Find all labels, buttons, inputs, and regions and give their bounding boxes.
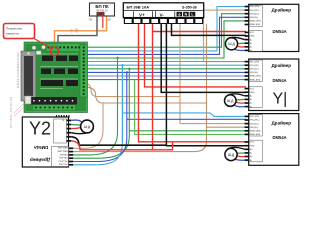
wire cyan: PCB to driver Y1 row2 <box>87 64 246 66</box>
svg-text:ENBL+(EN): ENBL+(EN) <box>250 131 261 133</box>
ground N L boxed labels <box>177 12 183 17</box>
svg-text:DM54A: DM54A <box>273 135 287 140</box>
driver Y2 (bottom left, rotated 180) <box>22 117 73 167</box>
svg-text:DIR+(DI+): DIR+(DI+) <box>250 123 259 125</box>
svg-text:ENBL-(EN): ENBL-(EN) <box>250 134 260 136</box>
motor Z <box>225 148 237 160</box>
white connector bottom-left <box>25 96 31 104</box>
svg-text:ENBL+(EN): ENBL+(EN) <box>57 150 67 152</box>
wire cyan: Y2 pin to rail v3 <box>73 142 122 165</box>
DB25 connector <box>21 51 36 101</box>
svg-text:Ш.Д: Ш.Д <box>228 42 235 46</box>
svg-text:DIR+(DI+): DIR+(DI+) <box>250 69 259 71</box>
wire red rail to driver X VCC + down to Y2 <box>152 24 154 150</box>
wire tan rail 2 down <box>206 24 208 141</box>
svg-text:DIR-(DI-): DIR-(DI-) <box>59 153 67 155</box>
svg-text:Драйвер: Драйвер <box>272 7 292 13</box>
svg-text:ENBL-(EN): ENBL-(EN) <box>250 24 260 26</box>
svg-text:-5В: -5В <box>89 19 93 22</box>
svg-text:N: N <box>185 13 188 17</box>
svg-text:PUL+(PU): PUL+(PU) <box>250 116 260 118</box>
svg-text:Y2: Y2 <box>29 119 51 139</box>
svg-text:GND: GND <box>250 145 255 147</box>
wire cyan: PCB to driver X PUL <box>87 7 246 51</box>
svg-text:Драйвер: Драйвер <box>272 120 292 126</box>
svg-text:PUL-(PU-): PUL-(PU-) <box>250 120 260 122</box>
wire green rail v4 + branch driver Z row5 <box>128 69 130 136</box>
wire green: PCB to driver Y1 row6 <box>87 79 246 81</box>
wire tan rail: PSU area down <box>179 24 181 124</box>
motor Y1 <box>225 95 237 107</box>
PSU 36V box <box>123 3 203 24</box>
terminal cells <box>124 18 203 24</box>
svg-text:Драйвер: Драйвер <box>272 62 292 68</box>
wire black rail to driver Y1 GND <box>161 24 246 93</box>
wire black rail to driver Z GND <box>166 24 246 146</box>
svg-text:Драйвер: Драйвер <box>30 157 51 164</box>
motor Y1 wires <box>226 94 245 98</box>
wire cyan: PCB to driver Y1 row1 <box>87 61 246 63</box>
svg-text:OPTICAL-COUPLER: OPTICAL-COUPLER <box>9 96 13 128</box>
svg-text:DIR-(DI-): DIR-(DI-) <box>250 127 258 129</box>
svg-text:БП ПК: БП ПК <box>95 4 109 9</box>
svg-text:VCC: VCC <box>250 88 255 90</box>
svg-text:DIR+(DI+): DIR+(DI+) <box>59 156 68 158</box>
svg-text:DM54A: DM54A <box>34 145 49 150</box>
svg-text:DIR-(DI-): DIR-(DI-) <box>250 17 258 19</box>
svg-text:DIR+(DI+): DIR+(DI+) <box>250 13 259 15</box>
PCB board <box>21 42 88 113</box>
wire tan branch 2 to driver Z DIR- <box>207 126 247 128</box>
svg-text:Ш.Д: Ш.Д <box>228 153 235 157</box>
svg-text:ENBL+(EN): ENBL+(EN) <box>250 76 261 78</box>
svg-text:замкнуты: замкнуты <box>6 32 19 36</box>
wire blue rail v3 down + branch driver Z row2 <box>126 72 128 138</box>
driver Z (bottom right) DM54A <box>245 114 299 166</box>
wire red: Y2 VCC to rail <box>71 141 172 150</box>
wire orange: PC PSU +5V to PCB <box>55 16 107 49</box>
wire grey: PC PSU GND to PCB <box>58 16 97 49</box>
svg-text:ENBL-(EN): ENBL-(EN) <box>58 146 68 148</box>
wire black rail to driver X GND <box>172 24 247 36</box>
junction dots <box>116 57 130 70</box>
wire blue: Y2 pin to rail v2 <box>73 138 127 162</box>
wire red rail to driver Z VCC <box>139 24 247 142</box>
motor X <box>225 38 237 50</box>
motor Y2 wires <box>71 120 81 122</box>
wire blue: PCB to driver X DIR <box>87 17 246 54</box>
callout box <box>4 24 35 39</box>
wire red rail to driver Y1 VCC <box>145 24 247 87</box>
motor X wires <box>226 37 244 41</box>
wire green: Y2 pin to green rail v1 <box>73 132 117 155</box>
svg-text:Перемычки: Перемычки <box>6 27 22 31</box>
svg-text:PUL-(PU-): PUL-(PU-) <box>250 10 260 12</box>
wire cyan rail v2 down + branch driver Z row1 <box>121 65 123 142</box>
svg-text:+5В: +5В <box>72 28 74 33</box>
wire green: PCB to green rail junction <box>87 21 246 58</box>
svg-text:DB25 CONNECTOR: DB25 CONNECTOR <box>16 52 20 88</box>
svg-text:B-: B- <box>250 160 252 162</box>
svg-text:GND: GND <box>77 28 79 33</box>
svg-text:БП 36В 10А: БП 36В 10А <box>127 4 150 9</box>
optocoupler leader lines <box>14 104 24 117</box>
motor Z wires <box>226 147 245 151</box>
PCB top terminal strip <box>32 44 80 55</box>
driver X (top right) DM54A <box>245 4 299 52</box>
svg-text:V-: V- <box>160 12 165 17</box>
svg-text:VCC: VCC <box>250 32 255 34</box>
red stubs under PCB bottom strip <box>38 109 53 113</box>
wire tan: Y2 pin to tan rail 2 <box>73 141 206 152</box>
svg-text:S-350-36: S-350-36 <box>182 5 197 9</box>
svg-text:DM54A: DM54A <box>273 78 287 83</box>
wire green rail v1 down <box>117 58 119 132</box>
svg-text:DIR-(DI-): DIR-(DI-) <box>250 72 258 74</box>
red circle annotation on PCB jumper <box>50 47 59 56</box>
svg-text:B-: B- <box>62 118 64 120</box>
svg-text:PUL-(PU-): PUL-(PU-) <box>58 159 67 161</box>
svg-text:PUL+(PU): PUL+(PU) <box>250 61 260 63</box>
wire tan: PCB to tan rail 2 <box>84 87 207 103</box>
PCB right terminal strip <box>80 45 88 97</box>
svg-text:B-: B- <box>250 50 252 52</box>
svg-text:Ш.Д: Ш.Д <box>227 99 234 103</box>
PSU PC box <box>89 3 115 28</box>
bottom component row <box>30 97 77 105</box>
svg-text:PUL+(PU): PUL+(PU) <box>58 163 67 165</box>
svg-text:DM54A: DM54A <box>273 29 287 34</box>
wire green rail v5 + branch driver Z row6 <box>135 80 246 135</box>
wire tan chain: driver X PUL+ to driver Y1 PUL+ <box>204 10 247 62</box>
svg-text:A-: A- <box>250 42 252 45</box>
wire green: Y2 pin to rail v4 <box>73 136 129 158</box>
wire green: PCB to driver X ENBL <box>87 14 246 48</box>
svg-text:ENBL-(EN): ENBL-(EN) <box>250 79 260 81</box>
svg-text:Ш.Д: Ш.Д <box>84 125 91 129</box>
svg-text:PUL+(PU): PUL+(PU) <box>250 6 260 8</box>
svg-text:GND: GND <box>250 92 255 94</box>
svg-text:A-: A- <box>250 152 252 155</box>
svg-text:V+: V+ <box>139 12 145 17</box>
svg-text:VCC: VCC <box>250 142 255 144</box>
ICs <box>41 56 78 87</box>
wire green: PCB to driver Y1 row3 <box>87 68 246 70</box>
svg-text:A-: A- <box>250 98 252 101</box>
svg-text:ENBL+(EN): ENBL+(EN) <box>250 21 261 23</box>
svg-text:+5В: +5В <box>107 19 112 22</box>
wire violet: PCB to driver Y1 row5 <box>85 75 246 77</box>
wire tan branch to driver Z DIR+ <box>180 123 246 125</box>
driver Y1 (middle right) DM54A <box>245 59 299 111</box>
wire tan: Y2 pin to tan rail <box>73 103 103 148</box>
dip ticks on Y2 top edge <box>57 115 70 118</box>
svg-text:B-: B- <box>250 106 252 108</box>
svg-text:Y|: Y| <box>273 91 288 108</box>
motor Y2 <box>81 120 94 133</box>
svg-text:PUL-(PU-): PUL-(PU-) <box>250 65 260 67</box>
wire black: Y2 GND to rail <box>71 137 166 145</box>
wire tan: PCB to tan rail <box>84 83 180 96</box>
wire blue: PCB to driver Y1 row4 <box>87 71 246 73</box>
callout leader <box>33 38 53 49</box>
svg-text:GND: GND <box>250 36 255 38</box>
